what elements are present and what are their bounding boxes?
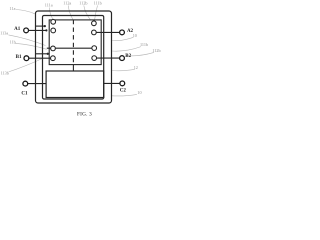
svg-text:112b: 112b xyxy=(79,0,87,5)
leader 11b xyxy=(15,43,46,49)
wire to node A xyxy=(36,25,45,27)
svg-text:11b: 11b xyxy=(10,39,16,44)
contact B upper-left xyxy=(51,46,56,51)
svg-text:C1: C1 xyxy=(21,91,28,96)
inner contact box xyxy=(49,20,101,65)
leader 113b xyxy=(9,58,44,72)
leader 112b xyxy=(84,6,91,21)
contact B upper-right xyxy=(92,46,97,51)
wire C2 xyxy=(104,82,120,84)
leader 12 xyxy=(112,69,135,71)
leader 10 top-right xyxy=(112,37,134,40)
leader 111b right xyxy=(112,47,141,52)
wire A1 xyxy=(29,29,47,31)
link to lower box xyxy=(72,65,74,71)
svg-text:A2: A2 xyxy=(127,29,134,34)
lower box 12 xyxy=(46,71,104,98)
wire B2 xyxy=(97,57,120,59)
terminal B2 xyxy=(120,56,125,61)
svg-text:A1: A1 xyxy=(14,27,21,32)
second enclosure box xyxy=(43,16,104,100)
svg-text:111a: 111a xyxy=(45,3,53,8)
wire to node B xyxy=(36,53,48,55)
svg-text:B2: B2 xyxy=(125,54,131,59)
svg-text:12: 12 xyxy=(134,65,138,70)
terminal B1 xyxy=(24,56,29,61)
leader 111a xyxy=(50,8,54,20)
terminal C2 xyxy=(120,81,125,86)
svg-text:111b: 111b xyxy=(140,42,148,47)
leader 11a xyxy=(16,10,35,14)
node dot A xyxy=(44,25,46,27)
svg-text:10: 10 xyxy=(137,90,141,95)
terminal C1 xyxy=(23,81,28,86)
node dot A wire end xyxy=(45,29,47,31)
svg-text:112a: 112a xyxy=(63,1,71,6)
leader 112a xyxy=(68,6,73,20)
contact B lower-left xyxy=(51,56,56,61)
contact B lower-right xyxy=(92,56,97,61)
node dot B xyxy=(47,53,49,55)
contact 112a lower-left xyxy=(51,28,56,33)
svg-text:113a: 113a xyxy=(0,31,8,36)
leader 113a xyxy=(9,35,46,46)
row B rail wire xyxy=(47,47,92,49)
svg-text:B1: B1 xyxy=(16,55,22,60)
leader 111b xyxy=(95,5,98,20)
terminal A2 xyxy=(120,30,125,35)
svg-text:112b: 112b xyxy=(152,48,160,53)
contact 111a upper-left xyxy=(51,19,56,24)
svg-text:113b: 113b xyxy=(1,70,9,75)
contact 111b upper-right xyxy=(92,21,97,26)
leader 10 bottom-right xyxy=(112,94,137,96)
svg-text:111b: 111b xyxy=(94,0,102,5)
terminal A1 xyxy=(24,28,29,33)
svg-text:11a: 11a xyxy=(10,6,16,11)
wire B1 xyxy=(29,57,51,59)
svg-text:10: 10 xyxy=(133,33,137,38)
svg-text:C2: C2 xyxy=(120,88,127,93)
outer enclosure box 10 xyxy=(36,11,112,103)
svg-text:FIG. 3: FIG. 3 xyxy=(77,111,92,117)
wire A2 xyxy=(96,31,119,33)
contact 112b lower-right xyxy=(92,30,97,35)
leader 112b right xyxy=(127,52,155,56)
dashed coupling line xyxy=(72,20,74,65)
wire C1 xyxy=(28,83,46,85)
